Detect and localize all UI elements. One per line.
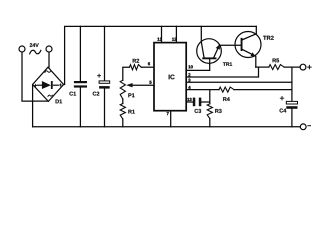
transistor TR2 [235,32,261,58]
label C3 [195,109,202,113]
TR2 collector [242,26,256,40]
wire AC right to bridge [48,52,50,67]
C2 polarity plus [98,74,101,77]
wire C3 to R3 [201,101,210,103]
pin 10 [188,65,192,68]
capacitor C4 [286,101,297,104]
label R3 [215,109,221,113]
label C4 [280,109,287,113]
potentiometer P1 [120,80,125,99]
label TR1 [223,62,232,65]
capacitor C3 [193,98,202,107]
node 0V rail [33,126,301,128]
wire pin 7 to 0V [170,111,172,127]
wire output node down to C4 [291,67,293,101]
pin 3 [188,79,190,82]
wire pin 13 to C3 [186,101,193,103]
capacitor C2 [104,26,106,81]
wire pin 4 to R4 [186,89,219,91]
terminal output plus [300,64,306,70]
label C2 [93,92,100,96]
TR2 emitter [242,49,256,67]
pin 5 [149,81,151,84]
C4 polarity plus [280,97,283,100]
TR1 emitter [214,45,220,57]
P1 wiper arrow [132,84,154,86]
D1 ac mark top [45,71,51,73]
terminal output minus [300,124,306,130]
label TR2 [263,36,274,40]
wire bridge minus down [32,85,34,127]
transistor TR1 [197,39,222,64]
D1 polarity mark left [34,84,37,87]
diode of D1 [37,81,59,89]
D1 ac mark bottom [48,95,53,96]
wire TR2 emitter to R5 [256,66,269,68]
bridge rectifier D1 [33,67,64,101]
pin 7 [167,112,169,115]
pin 6 [148,62,150,65]
pin 12 [172,38,176,41]
label 24V [30,43,39,47]
label C1 [69,92,76,96]
resistor R4 [219,87,234,92]
pin 13 [187,98,191,101]
wire TR1 emitter to TR2 base [219,44,240,46]
wire R4 to output node [234,89,292,91]
capacitor C1 [79,26,81,81]
D1 polarity mark right [59,84,62,87]
op-amp IC box [154,43,186,111]
label R1 [128,110,135,114]
resistor R3 [207,104,212,119]
wire pin 10 to TR1 base [186,59,209,70]
TR1 collector [201,26,204,57]
wire pin 11 [161,26,163,42]
resistor R1 [122,99,124,104]
wire pin 3 to output node [186,81,292,83]
wire R5 to terminal [284,66,300,68]
plus mark [308,65,311,68]
label R5 [273,59,280,63]
terminal AC left [19,46,25,52]
wire pin 12 [175,26,177,42]
terminal AC right [46,46,52,52]
pin 11 [157,38,161,41]
wire R4 node down to R3 [209,90,211,104]
label D1 [56,100,63,104]
label R2 [133,59,139,63]
resistor R2 [123,67,130,80]
wire pin 2 to TR2 emitter [186,67,258,77]
node V+ rail [65,26,257,84]
pin 2 [188,73,190,76]
label P1 [128,93,134,97]
AC sine symbol [30,50,41,54]
resistor R5 [269,65,284,70]
label R4 [223,97,230,101]
wire AC left to bridge [22,52,47,101]
label IC [169,75,175,80]
pin 4 [188,86,190,89]
minus mark [308,125,311,127]
